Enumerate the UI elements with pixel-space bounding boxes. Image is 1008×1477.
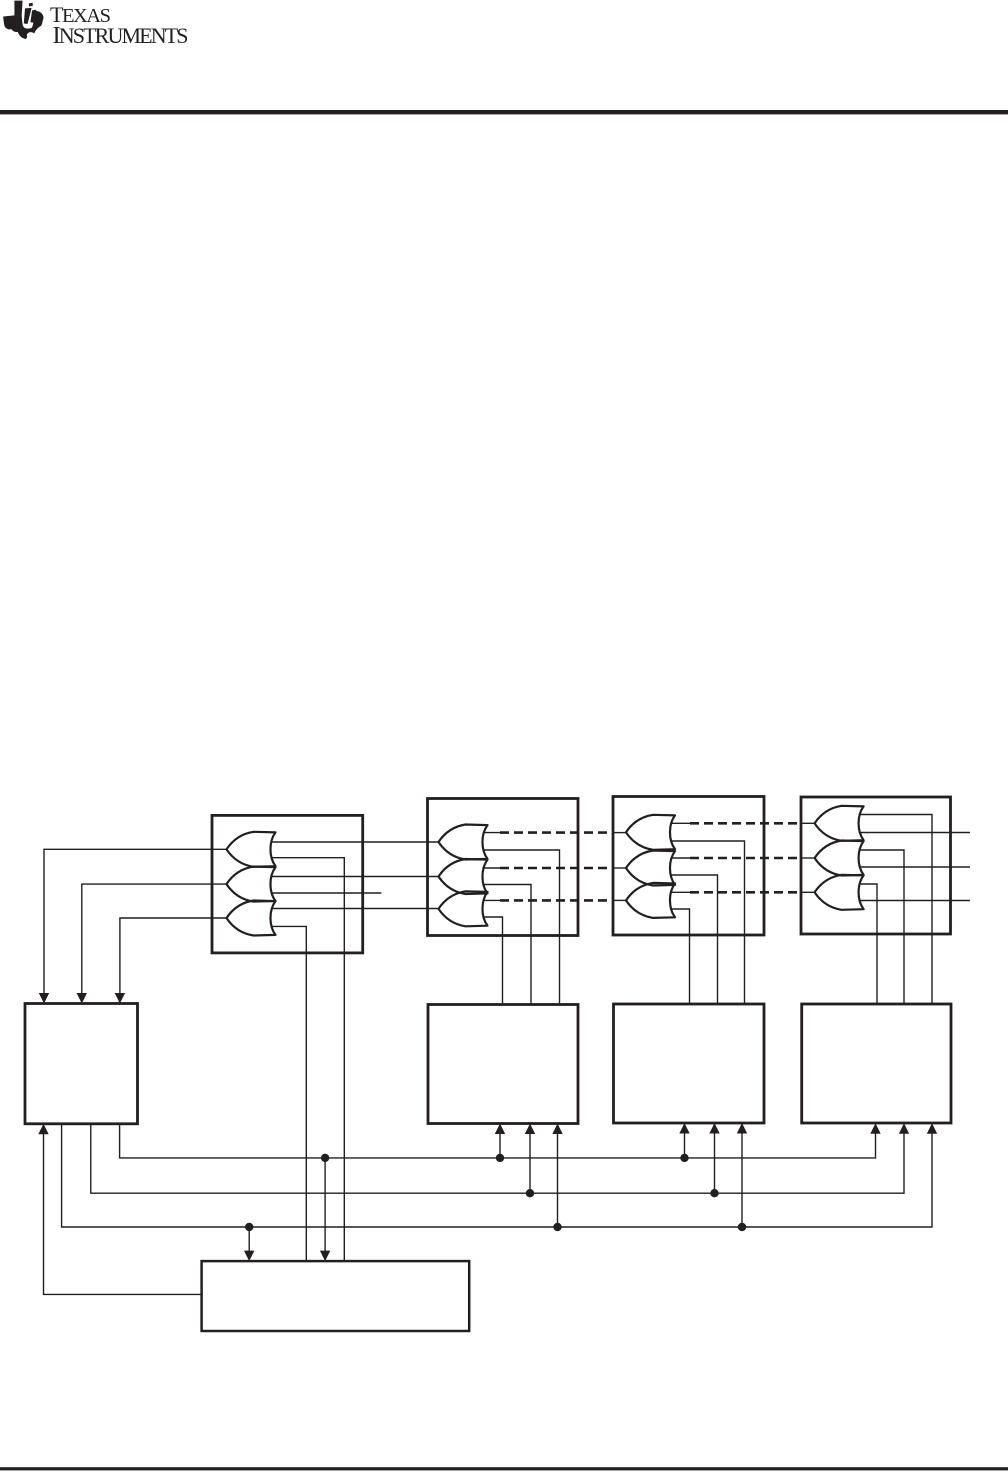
junction bus2 to mask box3 <box>710 1189 718 1197</box>
or-gate U4C <box>815 875 864 910</box>
arrowhead bus3 into mask box 4 <box>927 1123 937 1134</box>
wire box3 gate C lower to mask box top <box>666 909 690 1004</box>
bus wire 3 <box>62 1124 932 1227</box>
wire box1 gate A to box2 gate A tip <box>267 841 441 843</box>
arrowhead bus3 to mask box2 <box>552 1124 562 1135</box>
arrowhead bus3 into control box <box>244 1251 254 1262</box>
dashed wire box2 gate B to box3 gate B <box>500 867 613 870</box>
junction bus2 to mask box2 <box>526 1189 534 1197</box>
wire box2 gate A attach <box>479 832 501 834</box>
wire bus3 down to control box <box>248 1227 250 1252</box>
arrowhead bus1 into control box <box>320 1251 330 1262</box>
or-gate U1C <box>227 901 276 936</box>
bus wire 1 (register to mask boxes) <box>120 1124 876 1158</box>
block box2 (gate group 2) <box>428 799 579 936</box>
wire box1 gate B lower stub <box>267 892 382 894</box>
wire box2 gate B attach <box>479 867 501 869</box>
wire box4 gate B output stub <box>855 866 971 868</box>
wire box4 gate A tip <box>801 822 817 824</box>
arrowhead bus2 into mask box 4 <box>899 1123 909 1134</box>
wire box3 gate B attach <box>666 857 690 859</box>
wire box4 gate B tip <box>801 857 817 859</box>
wire box1 gateA output to register <box>44 849 229 994</box>
block box4 (gate group 4) <box>801 797 951 934</box>
wire box1 gate A lower to control box top <box>267 858 345 1261</box>
wire box3 gate C attach <box>666 891 690 893</box>
wire box4 gate C upper to mask box top <box>855 884 878 1004</box>
dashed wire box3 gate B to box4 gate B <box>690 857 801 860</box>
TI logo group <box>3 1 188 50</box>
or-gate U3A <box>626 815 675 850</box>
wire box2 gate C lower to mask box top <box>479 917 503 1005</box>
wire box2 gate C attach <box>479 899 501 901</box>
arrowhead bus2 to mask box2 <box>525 1124 535 1135</box>
logo letter i dot (black) <box>29 3 33 7</box>
wire box3 gate B tip <box>613 867 628 869</box>
wire box3 gate B lower to mask box top <box>666 875 718 1004</box>
arrowhead into register box top (C) <box>115 993 125 1004</box>
bottom rule <box>0 1467 1008 1470</box>
wire bus3 to mask box2 <box>557 1133 559 1227</box>
bus wire 2 <box>91 1124 904 1193</box>
arrowhead into register box top (B) <box>77 993 87 1004</box>
logo panhandle block <box>14 1 22 16</box>
arrowhead bus1 into mask box 4 <box>870 1123 880 1134</box>
top rule <box>0 110 1008 114</box>
wire box3 gate C tip <box>613 899 628 901</box>
wire box1 gateC output to register <box>120 918 229 994</box>
junction bus3 to mask box2 <box>553 1223 561 1231</box>
wire box4 gate A output stub <box>855 832 971 834</box>
dashed wire box2 gate C to box3 gate C <box>500 899 613 902</box>
or-gate U3B <box>626 851 675 886</box>
wire bus2 to mask box2 <box>529 1133 531 1193</box>
svg-text:INSTRUMENTS: INSTRUMENTS <box>53 22 189 49</box>
junction bus1/control <box>321 1154 329 1162</box>
block register box <box>25 1004 138 1124</box>
or-gate U2A <box>439 825 488 860</box>
block box1 (gate group 1) <box>212 815 363 953</box>
or-gate U4A <box>815 806 864 841</box>
wire control box to register box <box>44 1133 202 1294</box>
dashed wire box3 gate A to box4 gate A <box>690 822 801 825</box>
arrowhead bus1 to mask box2 <box>495 1124 505 1135</box>
wire box1 gate C lower to control box top <box>267 926 307 1261</box>
wire box4 gate C tip <box>801 891 817 893</box>
or-gate U4B <box>815 841 864 876</box>
wire bus3 to mask box3 <box>741 1133 743 1228</box>
junction bus3 to mask box3 <box>738 1223 746 1231</box>
junction bus3/control <box>245 1223 253 1231</box>
arrowhead bus2 to mask box3 <box>709 1123 719 1134</box>
wire box3 gate A tip <box>613 832 628 834</box>
arrowhead feedback into register box <box>38 1124 48 1135</box>
block mask box 2 <box>428 1005 578 1124</box>
arrowhead bus1 to mask box3 <box>679 1123 689 1134</box>
wire bus1 to mask box2 <box>499 1133 501 1158</box>
arrowhead into register box top (A) <box>39 993 49 1004</box>
wire box2 gate A lower to mask box top <box>479 850 560 1005</box>
wire box4 gate B upper to mask box top <box>855 850 905 1004</box>
wire box1 gate C to box2 gate C tip <box>267 908 441 910</box>
or-gate U2C <box>439 891 488 926</box>
Texas Instruments logo: state body <box>3 11 43 39</box>
wire bus1 down to control box <box>324 1158 326 1252</box>
wire bus2 to mask box3 <box>714 1133 716 1194</box>
wire bus1 to mask box3 <box>684 1133 686 1158</box>
wire box1 gate B to box2 gate B tip <box>267 876 441 878</box>
logo letter t stem (black) <box>24 8 32 24</box>
or-gate U3C <box>626 883 675 918</box>
wire box4 gate C output stub <box>855 900 971 902</box>
block mask box 4 <box>802 1004 951 1123</box>
wire box3 gate A attach <box>666 822 690 824</box>
block box3 (gate group 3) <box>613 797 764 936</box>
dashed wire box2 gate A to box3 gate A <box>500 831 613 834</box>
junction bus1 to mask box2 <box>496 1154 504 1162</box>
junction bus1 to mask box3 <box>680 1154 688 1162</box>
wire box3 gate A lower to mask box top <box>666 841 745 1004</box>
block mask box 3 <box>614 1004 765 1123</box>
or-gate U1A <box>227 832 276 867</box>
wire box1 gateB output to register <box>82 884 229 994</box>
block control box <box>202 1261 470 1331</box>
logo letter i stem (black) <box>30 10 36 23</box>
wire box2 gate B lower to mask box top <box>479 885 532 1005</box>
or-gate U2B <box>439 859 488 894</box>
or-gate U1B <box>227 867 276 902</box>
arrowhead bus3 to mask box3 <box>737 1123 747 1134</box>
wire box4 gate A upper to mask box top <box>855 815 933 1005</box>
dashed wire box3 gate C to box4 gate C <box>690 891 801 894</box>
